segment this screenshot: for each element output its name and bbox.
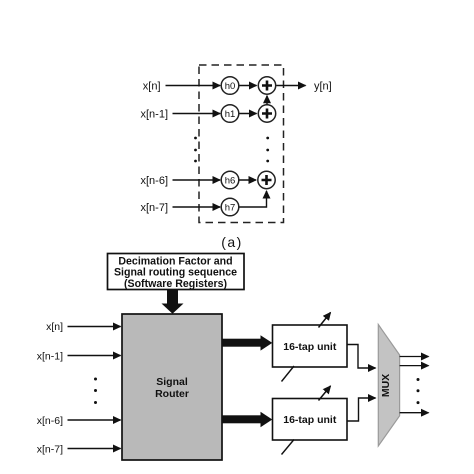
programmability arrow unit 1 <box>319 313 331 328</box>
bus-width slash unit 2 <box>282 440 295 455</box>
wire A2 up to A1 <box>266 96 268 105</box>
svg-text:x[n-6]: x[n-6] <box>140 175 168 187</box>
wire h1 to adder A2 <box>240 113 257 115</box>
svg-text:(Software Registers): (Software Registers) <box>124 278 227 290</box>
svg-text:h1: h1 <box>225 109 236 120</box>
wire h6 to adder A3 <box>240 179 257 181</box>
block: software registers <box>108 254 245 291</box>
ellipsis dots right column <box>266 137 269 163</box>
svg-text:x[n-1]: x[n-1] <box>140 109 168 121</box>
multiplexer MUX <box>378 325 399 447</box>
multiplier h1 <box>221 105 239 123</box>
wire x[n-6] into router <box>68 419 121 421</box>
multiplier h7 <box>221 198 239 216</box>
bus-width slash unit 1 <box>282 366 295 382</box>
adder A3 <box>258 171 275 188</box>
svg-text:16-tap unit: 16-tap unit <box>283 414 337 426</box>
wire x[n-1] into router <box>68 355 121 357</box>
wire x[n-1] to h1 <box>173 113 221 115</box>
svg-text:MUX: MUX <box>380 374 392 397</box>
wire A1 to y[n] <box>276 85 305 87</box>
adder A1 <box>258 77 275 94</box>
svg-text:h7: h7 <box>225 203 236 214</box>
ellipsis dots left column <box>194 137 197 163</box>
multiplier h6 <box>221 171 239 189</box>
multiplier h0 <box>221 77 239 95</box>
svg-text:Signal routing sequence: Signal routing sequence <box>114 267 237 279</box>
thick bus: router to 16-tap unit 1 <box>222 335 272 350</box>
wire: unit 1 to MUX <box>347 345 376 369</box>
thick wire: registers to router <box>162 290 184 314</box>
wire x[n] into router <box>68 326 121 328</box>
svg-text:h0: h0 <box>225 81 236 92</box>
output wire 3 <box>400 412 429 414</box>
wire: unit 2 to MUX <box>347 398 376 421</box>
svg-text:x[n]: x[n] <box>46 321 63 333</box>
thick bus: router to 16-tap unit 2 <box>222 412 272 427</box>
ellipsis dots outputs <box>417 378 420 404</box>
programmability arrow unit 2 <box>319 386 331 401</box>
svg-text:Router: Router <box>155 388 189 400</box>
svg-text:16-tap unit: 16-tap unit <box>283 341 337 353</box>
ellipsis dots inputs <box>94 378 97 405</box>
wire x[n] to h0 <box>166 85 221 87</box>
block: Signal Router <box>122 314 222 460</box>
svg-text:Decimation Factor and: Decimation Factor and <box>118 256 232 268</box>
svg-text:(a): (a) <box>221 234 243 250</box>
wire h0 to adder A1 <box>240 85 257 87</box>
wire h7 to adder A3 <box>240 191 267 207</box>
svg-text:Signal: Signal <box>156 376 188 388</box>
svg-text:h6: h6 <box>225 176 236 187</box>
output wire 2 <box>400 365 429 367</box>
svg-text:x[n]: x[n] <box>143 81 161 93</box>
svg-text:y[n]: y[n] <box>314 81 332 93</box>
block: 16-tap unit 2 <box>273 399 348 441</box>
svg-text:x[n-6]: x[n-6] <box>37 415 63 427</box>
wire x[n-7] to h7 <box>173 206 221 208</box>
adder A2 <box>258 105 275 122</box>
svg-text:x[n-7]: x[n-7] <box>37 444 63 456</box>
wire x[n-7] into router <box>68 448 121 450</box>
dashed boundary box <box>199 65 284 223</box>
svg-text:x[n-1]: x[n-1] <box>37 351 63 363</box>
block: 16-tap unit 1 <box>273 325 348 367</box>
wire x[n-6] to h6 <box>173 179 221 181</box>
svg-text:x[n-7]: x[n-7] <box>140 202 168 214</box>
output wire 1 <box>400 356 429 358</box>
